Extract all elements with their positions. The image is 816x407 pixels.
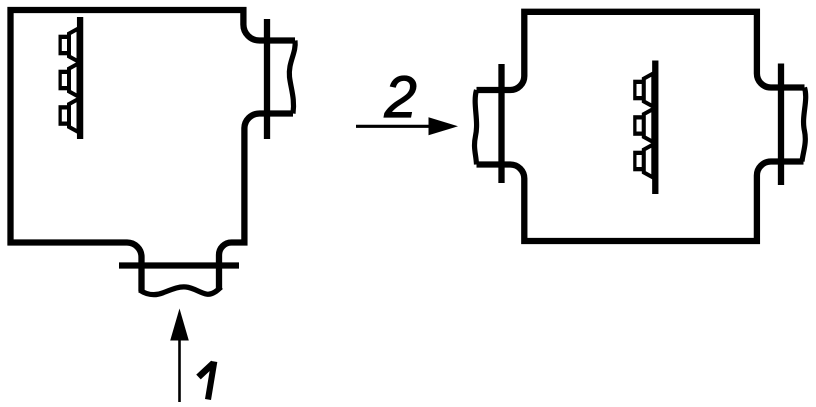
baffle line (left enclosure)	[77, 17, 83, 139]
right enclosure wall: right port bottom lip, right wall, bottom wall, left wall, left port bottom lip	[477, 162, 804, 242]
speaker A3 cone	[69, 99, 79, 132]
arrow 1 head	[170, 309, 189, 341]
flange of left port (right enclosure)	[498, 64, 504, 183]
speaker A3 magnet	[59, 105, 70, 126]
speaker A1 magnet	[59, 35, 70, 56]
break wave of right port (right enclosure)	[802, 88, 806, 162]
speaker A2 cone	[69, 63, 79, 96]
svg-text:2: 2	[384, 65, 417, 130]
break wave of right port (left enclosure)	[289, 41, 295, 114]
flange of right port (right enclosure)	[778, 64, 784, 186]
speaker A1 cone	[69, 28, 79, 61]
baffle line (right enclosure)	[652, 61, 658, 195]
flange of right port (left enclosure)	[264, 19, 270, 139]
left enclosure wall: left wall, top wall, top-right flare into right port	[11, 10, 296, 246]
break wave of bottom port (left enclosure)	[140, 287, 222, 295]
speaker B2 cone	[644, 109, 654, 142]
arrow 1 shaft (pointing up into bottom port)	[178, 338, 181, 402]
left enclosure wall: right port bottom lip, right wall, bottom-right flare, right port-tube wall	[219, 114, 293, 291]
left enclosure wall: bottom wall, bottom-left flare, left port-tube wall	[8, 243, 142, 292]
speaker A2 magnet	[59, 70, 70, 91]
arrow 2 shaft (pointing right)	[356, 125, 430, 128]
arrow 2 head	[429, 117, 459, 135]
right enclosure wall: left port top lip, left wall, top wall, right wall, right port top lip	[477, 12, 805, 90]
speaker B1 cone	[644, 73, 654, 106]
speaker B3 magnet	[633, 151, 644, 172]
speaker B2 magnet	[633, 115, 644, 136]
speaker B1 magnet	[633, 80, 644, 101]
speaker B3 cone	[644, 144, 654, 177]
break wave of left port (right enclosure)	[475, 90, 477, 165]
flange of bottom port (left enclosure)	[119, 262, 239, 268]
label 1	[199, 363, 214, 377]
